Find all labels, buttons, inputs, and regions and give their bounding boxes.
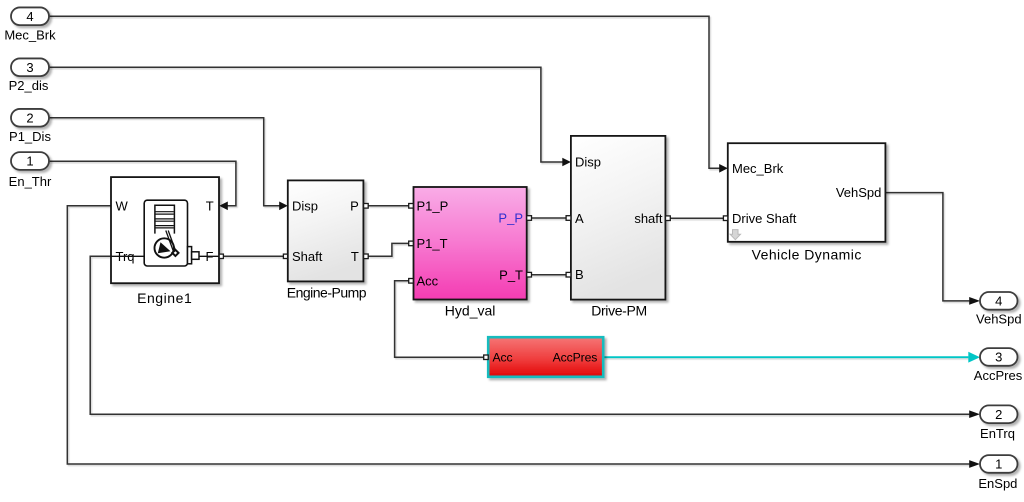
svg-text:P_T: P_T — [499, 267, 523, 282]
svg-text:Disp: Disp — [292, 199, 318, 214]
wire Vehicle Dynamic VehSpd to Out4 VehSpd — [885, 193, 969, 301]
port square Drive-PM B input — [566, 272, 571, 277]
port square Vehicle Dynamic Drive Shaft input — [723, 216, 727, 221]
svg-text:Engine1: Engine1 — [137, 290, 192, 306]
wire Engine1 F to Engine-Pump Shaft — [223, 255, 283, 257]
wire AccPres output to Out3 AccPres cyan selected — [603, 356, 968, 358]
svg-text:4: 4 — [26, 9, 33, 24]
svg-text:Hyd_val: Hyd_val — [445, 303, 496, 319]
outport 2 EnTrq — [980, 405, 1018, 441]
port square Engine-Pump Shaft input — [283, 254, 287, 258]
port square Hyd_val P1_P input — [409, 204, 414, 209]
wire Engine1 Trq branch to Out2 EnTrq — [90, 256, 969, 414]
inport 2 P1_Dis — [9, 109, 51, 144]
svg-text:P_P: P_P — [498, 211, 523, 226]
arrowhead into Drive-PM Disp — [562, 158, 571, 167]
port square Drive-PM A input — [566, 216, 571, 221]
svg-text:Mec_Brk: Mec_Brk — [4, 27, 56, 42]
svg-text:1: 1 — [26, 154, 33, 169]
svg-text:EnTrq: EnTrq — [980, 426, 1015, 441]
svg-text:Mec_Brk: Mec_Brk — [732, 161, 784, 176]
wire In4 Mec_Brk to Vehicle Dynamic Mec_Brk — [49, 16, 721, 168]
inport 1 En_Thr — [9, 152, 52, 189]
svg-text:shaft: shaft — [634, 211, 663, 226]
svg-text:P1_T: P1_T — [417, 236, 448, 251]
outport 3 AccPres — [974, 348, 1023, 383]
wire Hyd_val Acc to AccPres Acc — [395, 281, 484, 357]
port square Hyd_val Acc input — [409, 279, 414, 284]
svg-text:3: 3 — [995, 350, 1002, 365]
svg-text:P1_Dis: P1_Dis — [9, 129, 51, 144]
svg-text:Drive Shaft: Drive Shaft — [732, 211, 797, 226]
port square AccPres Acc input — [484, 355, 489, 360]
arrowhead cyan into Out3 AccPres — [968, 352, 980, 363]
svg-text:Acc: Acc — [417, 274, 439, 289]
svg-text:P1_P: P1_P — [417, 198, 449, 213]
block Hyd_val — [414, 187, 527, 319]
svg-text:Shaft: Shaft — [292, 249, 323, 264]
svg-text:3: 3 — [26, 60, 33, 75]
svg-text:2: 2 — [26, 111, 33, 126]
svg-text:AccPres: AccPres — [553, 351, 598, 365]
wire Hyd_val P_P to Drive-PM A — [532, 217, 566, 219]
svg-text:VehSpd: VehSpd — [836, 185, 882, 200]
svg-text:A: A — [575, 211, 584, 226]
Vehicle Dynamic gray link badge down arrow — [730, 230, 740, 240]
svg-text:VehSpd: VehSpd — [976, 312, 1022, 327]
wire In1 En_Thr to Engine1 T — [49, 161, 236, 206]
port square Hyd_val P_T output — [527, 272, 532, 277]
arrowhead into Out2 EnTrq — [969, 410, 980, 418]
svg-text:4: 4 — [995, 294, 1002, 309]
svg-text:P2_dis: P2_dis — [9, 78, 49, 93]
Engine1 piston engine icon — [111, 200, 219, 266]
block Engine-Pump — [287, 180, 367, 300]
wire Hyd_val P_T to Drive-PM B — [532, 274, 566, 276]
arrowhead into Out1 EnSpd — [969, 460, 980, 468]
wire Engine-Pump P to Hyd_val P1_P — [368, 205, 409, 207]
outport 4 VehSpd — [976, 292, 1022, 327]
svg-text:Vehicle Dynamic: Vehicle Dynamic — [752, 246, 862, 262]
block Engine1 — [111, 177, 219, 306]
inport 3 P2_dis — [9, 58, 49, 92]
outport 1 EnSpd — [978, 455, 1017, 491]
port square Drive-PM shaft output — [666, 216, 671, 221]
svg-text:Acc: Acc — [493, 351, 513, 365]
block AccPres selected with cyan border — [488, 337, 603, 377]
arrowhead into Engine1 T pointing left — [219, 202, 228, 211]
port square Engine-Pump T output — [364, 254, 369, 259]
wire Engine-Pump T to Hyd_val P1_T — [368, 243, 409, 256]
port square Engine-Pump P output — [364, 204, 369, 209]
svg-text:2: 2 — [995, 407, 1002, 422]
block Vehicle Dynamic — [728, 143, 886, 262]
svg-text:En_Thr: En_Thr — [9, 174, 52, 189]
arrowhead into Vehicle Dynamic Mec_Brk — [719, 164, 728, 173]
wire In2 P1_Dis to Engine-Pump Disp — [49, 118, 281, 206]
svg-text:Disp: Disp — [575, 155, 601, 170]
port square Hyd_val P_P output — [527, 216, 532, 221]
svg-text:AccPres: AccPres — [974, 368, 1023, 383]
arrowhead into Engine-Pump Disp — [279, 202, 288, 211]
svg-text:T: T — [351, 249, 359, 264]
block Drive-PM — [571, 136, 666, 318]
port square Hyd_val P1_T input — [409, 241, 414, 246]
wire Drive-PM shaft to Vehicle Dynamic Drive Shaft — [670, 217, 723, 219]
svg-text:Drive-PM: Drive-PM — [591, 302, 647, 318]
wire In3 P2_dis to Drive-PM Disp — [49, 67, 564, 162]
port square Engine1 F output — [219, 254, 223, 258]
inport 4 Mec_Brk — [4, 7, 56, 42]
svg-text:EnSpd: EnSpd — [978, 476, 1017, 491]
svg-text:W: W — [116, 199, 129, 214]
wire Engine1 W branch to Out1 EnSpd — [67, 206, 969, 464]
arrowhead into Out4 VehSpd — [969, 297, 980, 305]
svg-text:Engine-Pump: Engine-Pump — [287, 285, 367, 301]
svg-text:T: T — [206, 199, 214, 214]
svg-text:B: B — [575, 267, 584, 282]
svg-text:1: 1 — [995, 457, 1002, 472]
svg-text:P: P — [350, 199, 359, 214]
